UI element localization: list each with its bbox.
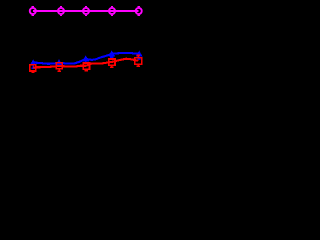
magenta error bars [32,7,140,16]
blue error bars (visible lower parts) [32,54,141,68]
red squares [30,58,142,71]
red line [33,59,138,68]
blue triangles [30,50,143,65]
magenta circle faces (occlude bars) [30,8,142,14]
magenta line [33,10,139,12]
magenta circle rings [30,8,142,14]
red error bars (visible below-square parts; cluster5 upper cap) [31,55,140,72]
blue line [33,53,139,64]
